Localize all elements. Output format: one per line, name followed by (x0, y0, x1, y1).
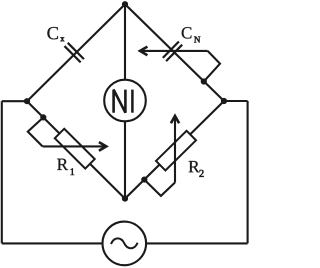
arrow R1 shaft (43, 145, 107, 147)
node left (24, 98, 30, 104)
wire bottom (2, 242, 248, 244)
arrowhead R2 (171, 116, 179, 123)
label R1 (57, 159, 68, 170)
resistor R2 box (156, 131, 196, 171)
wire right node to right edge (224, 100, 248, 102)
capacitor Cx plate 1 (68, 43, 84, 59)
arrow R2 shaft (174, 116, 176, 183)
wire null indicator to bottom node (124, 121, 126, 199)
label NI letter N (114, 90, 126, 113)
node right (221, 98, 227, 104)
capacitor CN plate 1 (163, 41, 179, 57)
resistor R1 box (55, 129, 95, 169)
wire R1 wiper return (28, 117, 44, 146)
wire left edge down (1, 101, 3, 243)
junction CN tap (201, 78, 207, 84)
wire arm top-left (Cx arm) (27, 4, 125, 101)
ac source circle (103, 222, 147, 266)
capacitor Cx plate 2 (64, 46, 80, 62)
junction R2 tap (141, 176, 147, 182)
wire R2 wiper return (144, 180, 175, 196)
wire CN wiper return (204, 51, 220, 82)
wire arm top-right (CN arm) (125, 4, 224, 101)
junction R1 tap (40, 114, 46, 120)
null indicator NI circle (104, 80, 146, 122)
label CN (182, 27, 192, 38)
arrow CN shaft (140, 50, 208, 52)
label R2 (189, 161, 200, 172)
wire left node to left edge (2, 100, 27, 102)
ac source sine symbol (111, 238, 138, 248)
label NI letter I (131, 90, 134, 113)
wire right edge up (247, 101, 249, 243)
wire top node to null indicator (124, 4, 126, 81)
node bottom (122, 196, 128, 202)
arrowhead R1 (99, 142, 106, 151)
wire arm bottom-left (R1 arm) (27, 101, 125, 198)
node top (122, 1, 128, 7)
label Cx (47, 27, 58, 39)
capacitor CN plate 2 (166, 45, 182, 61)
arrowhead CN (140, 47, 147, 56)
wire arm bottom-right (R2 arm) (125, 101, 224, 199)
